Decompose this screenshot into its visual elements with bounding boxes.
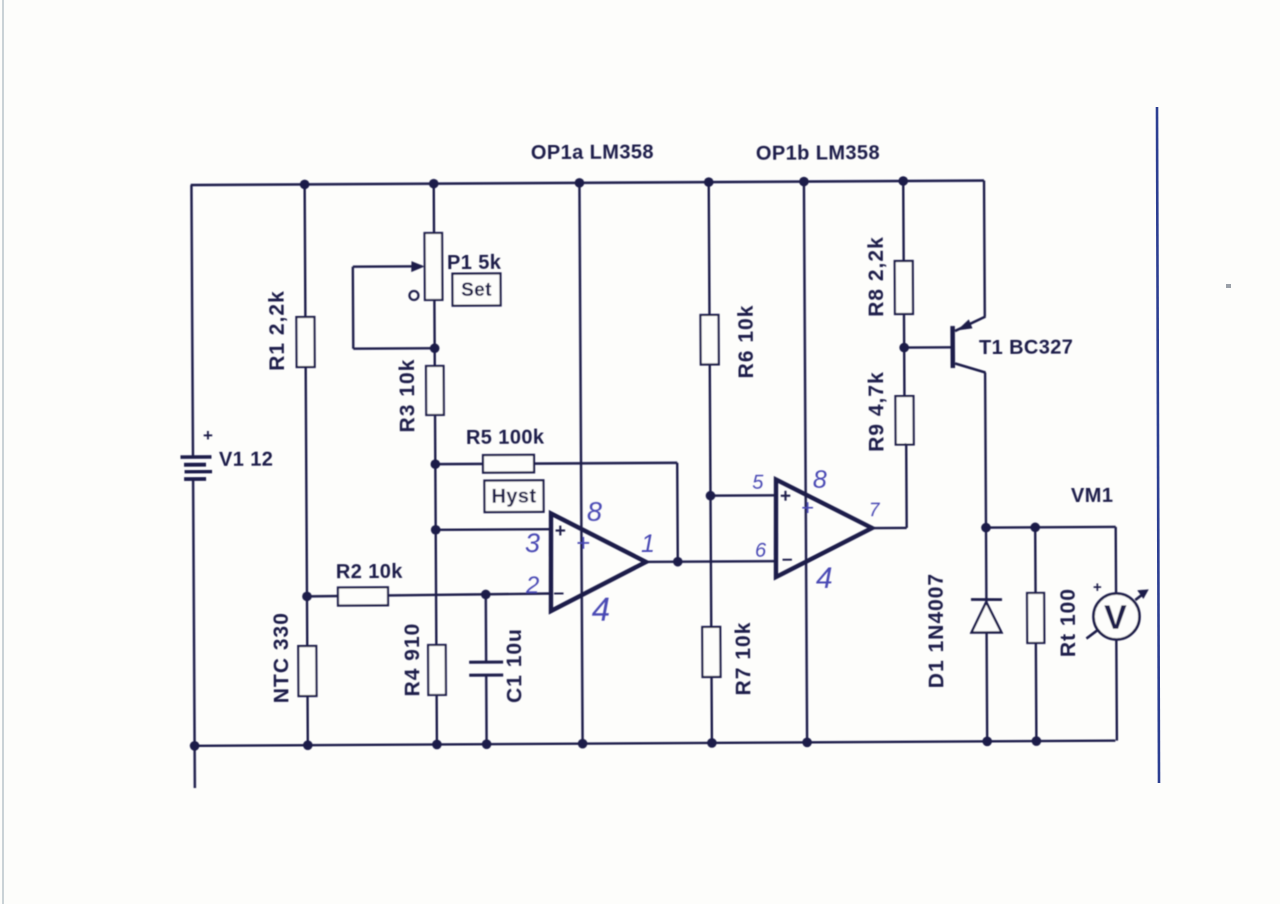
svg-text:–: –	[782, 549, 793, 570]
svg-text:4: 4	[592, 591, 611, 628]
svg-text:7: 7	[869, 500, 881, 521]
node ground OP1b	[802, 738, 812, 748]
node ground OP1a	[578, 739, 588, 749]
label box Hyst	[484, 480, 543, 512]
wire R1 to NTC	[306, 367, 308, 647]
wire +12V top rail	[191, 181, 984, 185]
svg-text:R1 2,2k: R1 2,2k	[266, 290, 289, 371]
potentiometer P1	[353, 233, 443, 349]
wire emitter to rail	[983, 181, 986, 317]
svg-text:C1 10u: C1 10u	[503, 628, 526, 703]
wire R3 to node	[434, 415, 437, 530]
svg-text:+: +	[780, 486, 791, 507]
svg-text:+: +	[203, 426, 213, 445]
wire R5 feedback	[435, 463, 677, 563]
svg-text:R9 4,7k: R9 4,7k	[865, 371, 888, 452]
node ground R4	[432, 740, 442, 750]
wire node to R4	[434, 530, 437, 645]
svg-text:–: –	[553, 583, 564, 604]
node top rail R8	[898, 176, 908, 186]
diode D1	[971, 599, 1002, 632]
node ground D1	[982, 737, 992, 747]
wire collector column	[985, 373, 987, 742]
wire left rail upper	[191, 185, 193, 457]
resistor Rt	[1027, 593, 1044, 643]
svg-text:+: +	[576, 530, 590, 557]
resistor R7	[702, 627, 720, 677]
svg-text:T1 BC327: T1 BC327	[979, 336, 1073, 359]
node ground left	[190, 741, 200, 751]
op-amp OP1b	[775, 479, 872, 577]
node top rail OP1b	[799, 177, 809, 187]
wire OP1a output	[646, 560, 777, 563]
svg-text:Set: Set	[461, 280, 492, 301]
resistor R6	[700, 315, 718, 365]
svg-text:+: +	[1093, 579, 1102, 596]
svg-text:6: 6	[755, 540, 767, 562]
svg-text:+: +	[801, 495, 814, 520]
node collector VM tap	[981, 523, 991, 533]
svg-text:R4 910: R4 910	[401, 623, 424, 697]
svg-text:3: 3	[525, 528, 540, 558]
node base junction	[899, 343, 909, 353]
resistor R9	[895, 396, 913, 445]
svg-text:1: 1	[641, 530, 655, 558]
resistor R1	[296, 317, 314, 367]
node top rail OP1a	[575, 178, 585, 188]
svg-text:R6 10k: R6 10k	[735, 305, 758, 379]
wire OP1b supply column	[804, 182, 807, 743]
wire P1 to R3	[433, 300, 436, 367]
node P1 wiper junction	[430, 343, 440, 353]
node ground NTC	[303, 740, 313, 750]
svg-text:R7 10k: R7 10k	[732, 622, 755, 696]
wire R7 to ground	[710, 677, 713, 743]
svg-text:8: 8	[587, 497, 602, 527]
wire NTC to ground	[306, 696, 309, 745]
svg-text:5: 5	[752, 472, 764, 494]
wire VM top	[986, 527, 1116, 594]
thermistor NTC	[298, 646, 316, 696]
wire R6 column	[708, 182, 711, 315]
svg-text:+: +	[555, 521, 566, 542]
wire R6 to R7	[710, 365, 711, 628]
label box Set	[452, 273, 500, 305]
svg-text:OP1b LM358: OP1b LM358	[756, 142, 880, 165]
svg-text:Rt 100: Rt 100	[1057, 588, 1080, 657]
node top rail R1	[300, 180, 310, 190]
transistor T1	[950, 317, 986, 373]
node ground Rt	[1032, 736, 1042, 746]
node NTC R2 junction	[302, 592, 312, 602]
resistor R8	[895, 261, 913, 314]
svg-text:R3 10k: R3 10k	[396, 359, 419, 433]
node C1 top junction	[481, 590, 491, 600]
op-amp OP1a	[550, 513, 646, 611]
resistor R5	[483, 455, 534, 473]
node pin5 junction	[706, 491, 716, 501]
wire P1 column top	[433, 184, 436, 234]
svg-text:VM1: VM1	[1071, 485, 1113, 507]
svg-text:R5 100k: R5 100k	[466, 427, 545, 449]
node Rt tap	[1030, 523, 1040, 533]
svg-text:4: 4	[816, 562, 833, 595]
wire R8 column	[902, 181, 905, 261]
resistor R4	[428, 645, 446, 695]
svg-text:R8 2,2k: R8 2,2k	[865, 236, 888, 317]
wire R9 to output	[905, 443, 906, 445]
wire Rt column upper	[1034, 527, 1037, 593]
wire OP1b output	[872, 444, 907, 528]
node feedback junction	[673, 557, 683, 567]
wire VM bottom	[1115, 639, 1118, 740]
wire R1 column	[303, 184, 306, 317]
voltmeter VM1	[1086, 579, 1149, 640]
wire R8 to R9	[903, 314, 906, 396]
wire pin5 input	[711, 494, 777, 497]
wire OP1a supply column	[579, 183, 582, 744]
svg-text:OP1a LM358: OP1a LM358	[531, 141, 654, 164]
wire pin3 input	[436, 528, 552, 531]
svg-text:P1 5k: P1 5k	[447, 252, 502, 274]
node top rail R6	[704, 177, 714, 187]
svg-text:8: 8	[813, 466, 827, 494]
node pin3 tap	[431, 525, 441, 535]
wire Rt to ground	[1035, 643, 1038, 741]
wire left rail lower	[193, 479, 195, 788]
svg-text:Hyst: Hyst	[491, 485, 536, 507]
svg-text:V: V	[1104, 599, 1127, 637]
wire pin2 input	[307, 594, 552, 597]
svg-text:V1 12: V1 12	[219, 449, 273, 471]
capacitor C1	[469, 662, 503, 675]
svg-text:NTC 330: NTC 330	[270, 612, 294, 703]
node ground C1	[482, 739, 492, 749]
wire base	[904, 346, 952, 349]
svg-text:2: 2	[525, 572, 540, 599]
wire C1 column	[485, 594, 488, 744]
wire ground bottom rail	[195, 741, 1116, 746]
node ground R7	[707, 738, 717, 748]
svg-text:D1 1N4007: D1 1N4007	[925, 573, 949, 688]
wire R4 to ground	[435, 695, 438, 745]
node top rail P1	[429, 179, 439, 189]
battery V1	[180, 426, 213, 479]
node R5 tap	[430, 459, 440, 469]
svg-text:R2 10k: R2 10k	[336, 561, 403, 583]
resistor R2	[338, 587, 388, 605]
resistor R3	[426, 366, 444, 415]
